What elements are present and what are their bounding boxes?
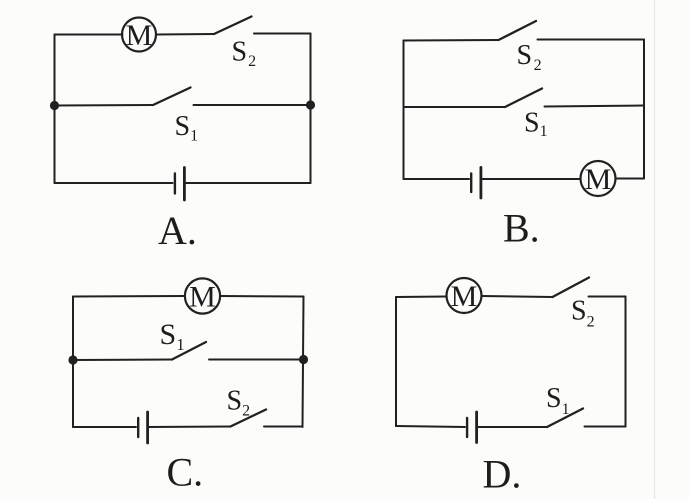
wire A top-right segment: [254, 33, 311, 35]
wire A bottom-left segment: [55, 182, 173, 184]
battery positive long plate (circuit B): [479, 167, 482, 198]
wire A right vertical: [310, 34, 312, 184]
wire D top-middle segment: [482, 296, 553, 297]
wire B bottom-right segment: [616, 178, 645, 180]
motor M1 (circuit A): [122, 18, 156, 52]
motor M3 (circuit C): [185, 278, 220, 313]
battery positive long plate (circuit A): [183, 168, 186, 201]
wire D top-right segment: [589, 296, 626, 298]
wire A middle-left segment: [55, 104, 154, 107]
junction node right (circuit C): [299, 355, 308, 364]
svg-text:S2: S2: [227, 386, 251, 420]
wire C bottom-right segment: [264, 426, 303, 428]
battery negative short plate (circuit A): [174, 174, 176, 194]
scan artifact faint vertical line: [654, 0, 656, 499]
svg-text:S1: S1: [524, 108, 548, 141]
wire C middle-left segment: [73, 359, 172, 362]
battery positive long plate (circuit C): [146, 412, 149, 443]
svg-text:C.: C.: [167, 450, 204, 495]
svg-text:S1: S1: [175, 111, 199, 145]
wire C bottom-left segment: [73, 426, 136, 428]
svg-text:M: M: [451, 280, 478, 313]
switch S2 blade (circuit C, open): [231, 410, 267, 427]
wire A bottom-right segment: [184, 182, 310, 184]
wire B top-right segment: [538, 39, 645, 41]
wire D right vertical: [625, 297, 627, 427]
svg-text:M: M: [189, 280, 216, 313]
svg-text:B.: B.: [503, 206, 540, 251]
battery negative short plate (circuit D): [466, 418, 468, 437]
wire C middle-right segment: [209, 359, 304, 361]
wire C left vertical: [72, 297, 74, 428]
motor M2 (circuit B): [581, 161, 616, 196]
battery negative short plate (circuit C): [137, 418, 139, 437]
wire D left vertical: [395, 297, 397, 426]
wire B middle-right segment: [545, 106, 645, 107]
wire D bottom-middle segment: [477, 426, 547, 428]
wire A top-left segment: [55, 34, 123, 36]
wire D top-left segment: [396, 296, 447, 299]
battery negative short plate (circuit B): [470, 174, 472, 193]
switch S1 blade (circuit A, open): [153, 88, 191, 106]
svg-text:M: M: [585, 163, 612, 196]
switch S1 blade (circuit D, open): [547, 409, 583, 428]
wire B left vertical: [403, 41, 405, 180]
wire C right vertical: [303, 297, 304, 428]
svg-text:D.: D.: [483, 452, 522, 497]
wire C top-left segment: [73, 295, 185, 298]
battery positive long plate (circuit D): [475, 412, 478, 443]
wire B top-left segment: [404, 39, 499, 42]
svg-text:S2: S2: [571, 296, 595, 331]
svg-text:S2: S2: [517, 40, 542, 74]
wire A middle-right segment: [194, 104, 311, 106]
junction node left (circuit A): [50, 101, 59, 110]
svg-text:S2: S2: [232, 37, 257, 71]
svg-text:A.: A.: [158, 208, 197, 253]
junction node right (circuit A): [306, 100, 315, 109]
wire C bottom-middle segment: [148, 426, 231, 429]
svg-text:S1: S1: [546, 383, 570, 418]
wire A left vertical: [54, 35, 56, 184]
wire B bottom-left segment: [404, 178, 470, 180]
wire A top-middle segment: [156, 33, 214, 36]
wire D bottom-right segment: [585, 426, 626, 428]
svg-text:M: M: [126, 19, 153, 52]
junction node left (circuit C): [68, 355, 77, 364]
switch S2 blade (circuit B, open): [499, 21, 537, 40]
wire D bottom-left segment: [396, 426, 465, 427]
switch S1 blade (circuit C, open): [172, 342, 206, 360]
wire B middle-left segment: [404, 106, 506, 108]
switch S1 blade (circuit B, open): [505, 89, 542, 108]
wire C top-right segment: [220, 295, 304, 298]
wire B bottom-middle segment: [481, 178, 581, 180]
wire B right vertical: [643, 40, 645, 179]
switch S2 blade (circuit A, open): [214, 17, 252, 35]
motor M4 (circuit D): [447, 278, 482, 313]
switch S2 blade (circuit D, open): [553, 278, 590, 298]
svg-text:S1: S1: [160, 318, 185, 354]
